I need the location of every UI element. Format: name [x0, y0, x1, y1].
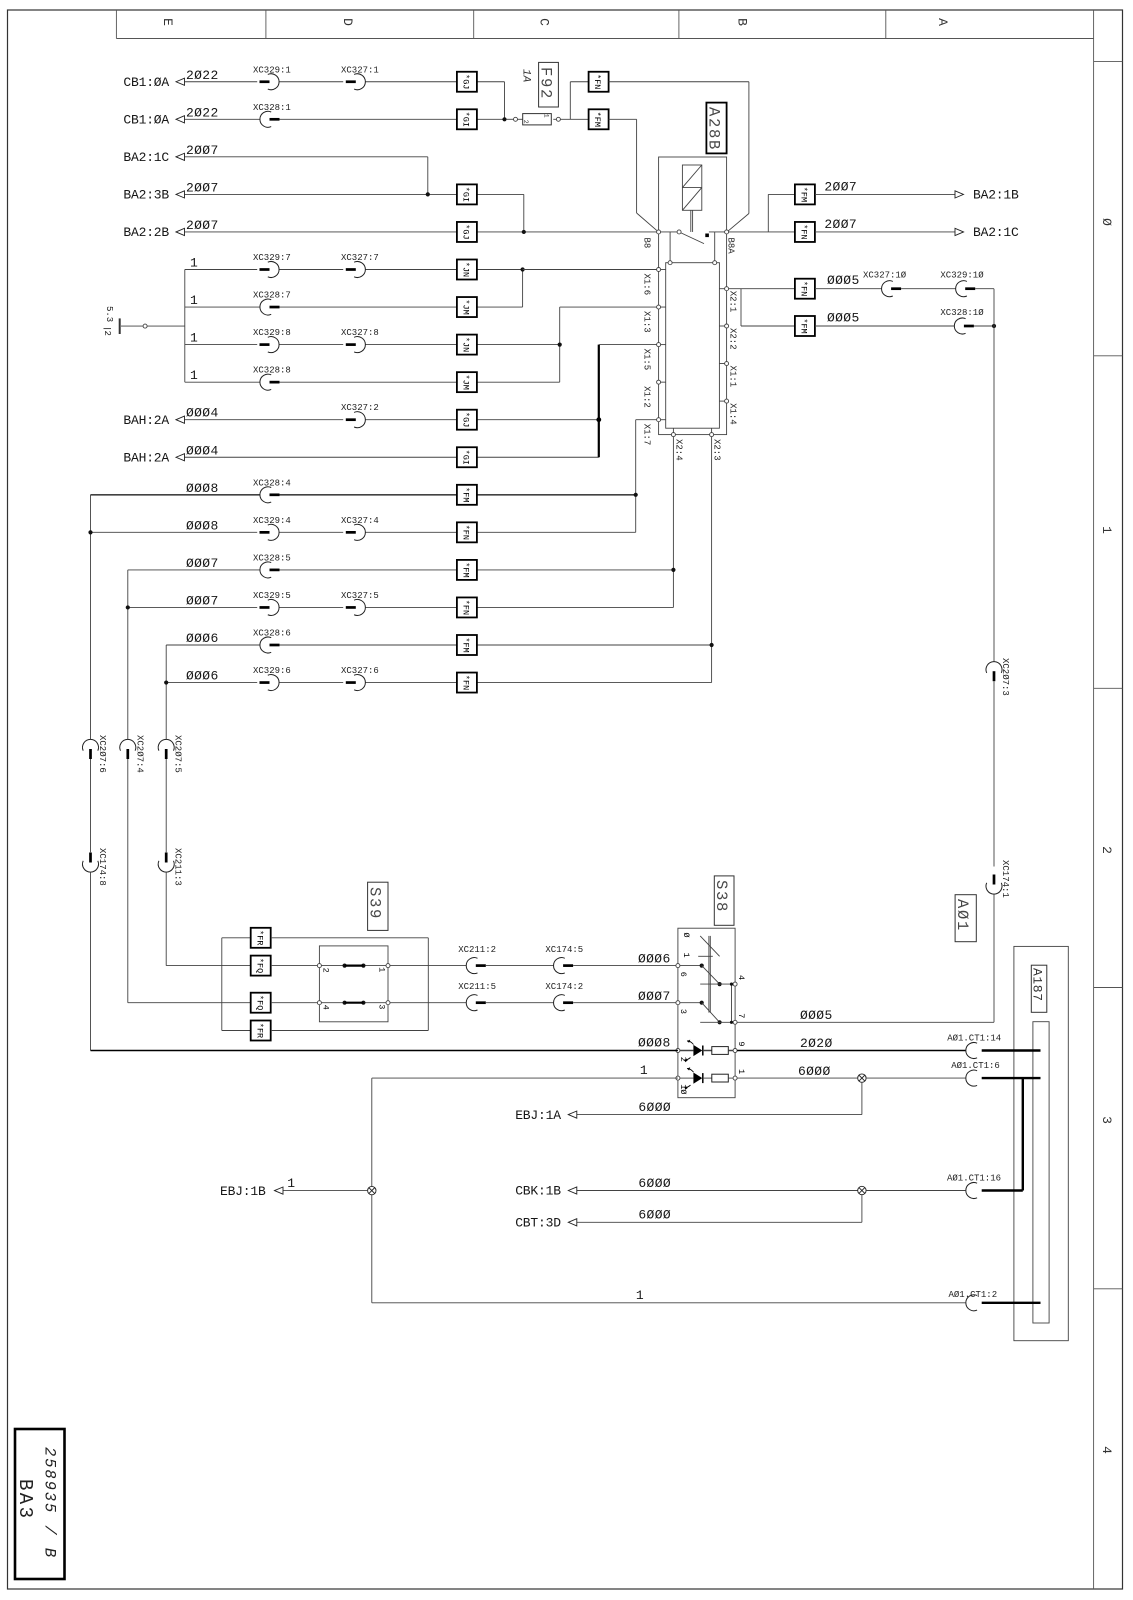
svg-text:*FM: *FM	[799, 318, 809, 333]
svg-text:4: 4	[320, 1005, 330, 1010]
svg-text:1Ø: 1Ø	[678, 1084, 688, 1094]
svg-text:ØØØ6: ØØØ6	[186, 669, 219, 684]
svg-text:XC327:6: XC327:6	[341, 666, 379, 676]
svg-text:*GI: *GI	[461, 450, 471, 465]
svg-text:XC328:7: XC328:7	[253, 291, 291, 301]
svg-text:X2:4: X2:4	[674, 439, 684, 461]
svg-text:3: 3	[377, 1004, 387, 1009]
svg-text:1: 1	[190, 331, 198, 346]
svg-text:*FR: *FR	[254, 930, 264, 945]
svg-text:X1:3: X1:3	[642, 311, 652, 333]
svg-text:B: B	[735, 18, 750, 26]
svg-text:XC2Ø7:4: XC2Ø7:4	[134, 735, 144, 773]
svg-text:*GJ: *GJ	[461, 74, 471, 89]
svg-text:ØØØ7: ØØØ7	[186, 593, 219, 608]
svg-text:*GJ: *GJ	[461, 224, 471, 239]
svg-text:Ø: Ø	[1099, 218, 1114, 226]
svg-text:X1:2: X1:2	[642, 386, 652, 408]
svg-text:BA2:1B: BA2:1B	[973, 188, 1019, 203]
svg-text:1: 1	[190, 368, 198, 383]
svg-text:AØ1.CT1:16: AØ1.CT1:16	[947, 1173, 1001, 1183]
svg-text:5.3: 5.3	[104, 306, 114, 322]
svg-text:X2:1: X2:1	[728, 291, 738, 313]
svg-text:6ØØØ: 6ØØØ	[638, 1100, 671, 1115]
svg-text:BA2:3B: BA2:3B	[123, 188, 169, 203]
svg-text:*FM: *FM	[799, 187, 809, 202]
svg-text:C: C	[537, 18, 552, 26]
svg-text:ØØØ7: ØØØ7	[186, 556, 219, 571]
svg-text:XC329:1: XC329:1	[253, 65, 291, 75]
svg-text:BA2:1C: BA2:1C	[123, 150, 169, 165]
svg-text:X1:1: X1:1	[728, 366, 738, 388]
svg-text:XC329:5: XC329:5	[253, 591, 291, 601]
svg-text:ØØØ8: ØØØ8	[186, 518, 219, 533]
svg-text:7: 7	[736, 1013, 746, 1018]
svg-text:F92: F92	[537, 67, 555, 100]
svg-text:BA2:1C: BA2:1C	[973, 225, 1019, 240]
svg-text:B8: B8	[642, 238, 652, 249]
svg-text:CB1:ØA: CB1:ØA	[123, 113, 169, 128]
svg-text:ØØØ5: ØØØ5	[800, 1008, 833, 1023]
svg-text:*FN: *FN	[461, 525, 471, 540]
svg-text:1: 1	[377, 967, 387, 972]
svg-text:*FQ: *FQ	[254, 995, 264, 1010]
svg-text:2: 2	[522, 120, 529, 124]
svg-text:BAH:2A: BAH:2A	[123, 450, 169, 465]
svg-text:2Ø22: 2Ø22	[186, 105, 219, 120]
svg-text:1: 1	[543, 114, 550, 118]
svg-text:*GJ: *GJ	[461, 412, 471, 427]
svg-text:2: 2	[1099, 846, 1114, 854]
svg-text:1: 1	[190, 256, 198, 271]
svg-text:EBJ:1A: EBJ:1A	[515, 1108, 561, 1123]
svg-text:1: 1	[640, 1063, 648, 1078]
svg-text:A: A	[935, 18, 950, 26]
svg-text:ØØØ5: ØØØ5	[827, 310, 860, 325]
svg-text:1A: 1A	[520, 69, 532, 83]
svg-text:A187: A187	[1030, 968, 1045, 1002]
svg-text:XC328:4: XC328:4	[253, 478, 291, 488]
svg-text:2ØØ7: 2ØØ7	[824, 179, 857, 194]
svg-text:XC327:1: XC327:1	[341, 65, 379, 75]
svg-text:258935 / B: 258935 / B	[41, 1447, 59, 1559]
svg-text:AØ1.CT1:6: AØ1.CT1:6	[951, 1061, 1000, 1071]
svg-text:*FM: *FM	[461, 637, 471, 652]
svg-text:ØØØ5: ØØØ5	[827, 273, 860, 288]
svg-text:CBK:1B: CBK:1B	[515, 1184, 561, 1199]
svg-text:1: 1	[736, 1069, 746, 1074]
svg-text:XC327:2: XC327:2	[341, 403, 379, 413]
svg-text:3: 3	[1099, 1116, 1114, 1124]
svg-text:EBJ:1B: EBJ:1B	[220, 1184, 266, 1199]
svg-text:XC174:8: XC174:8	[97, 848, 107, 886]
svg-text:XC174:1: XC174:1	[1000, 860, 1010, 898]
svg-text:XC327:4: XC327:4	[341, 516, 379, 526]
svg-text:CBT:3D: CBT:3D	[515, 1216, 561, 1231]
svg-text:1: 1	[287, 1176, 295, 1191]
svg-text:X2:3: X2:3	[712, 439, 722, 461]
svg-text:2Ø2Ø: 2Ø2Ø	[800, 1036, 833, 1051]
svg-text:ØØØ6: ØØØ6	[186, 631, 219, 646]
svg-text:BAH:2A: BAH:2A	[123, 413, 169, 428]
svg-text:A28B: A28B	[704, 107, 722, 151]
svg-text:Ø: Ø	[681, 933, 691, 938]
svg-text:2: 2	[102, 331, 112, 336]
svg-text:XC327:8: XC327:8	[341, 328, 379, 338]
svg-text:3: 3	[678, 1009, 688, 1014]
svg-text:XC211:5: XC211:5	[458, 982, 496, 992]
svg-text:X2:2: X2:2	[728, 328, 738, 350]
svg-text:ØØØ4: ØØØ4	[186, 443, 219, 458]
svg-text:*FN: *FN	[461, 600, 471, 615]
svg-text:*JN: *JN	[461, 337, 471, 352]
svg-text:ØØØ8: ØØØ8	[186, 481, 219, 496]
svg-text:4: 4	[1099, 1446, 1114, 1454]
svg-text:B8A: B8A	[726, 238, 736, 255]
svg-text:*JM: *JM	[461, 374, 471, 389]
svg-text:1: 1	[681, 953, 691, 958]
svg-text:*FN: *FN	[799, 281, 809, 296]
svg-text:2ØØ7: 2ØØ7	[186, 180, 219, 195]
svg-text:E: E	[160, 18, 175, 26]
svg-text:XC327:7: XC327:7	[341, 253, 379, 263]
svg-text:XC329:6: XC329:6	[253, 666, 291, 676]
svg-text:X1:4: X1:4	[728, 403, 738, 425]
svg-text:1: 1	[1099, 526, 1114, 534]
svg-text:X1:7: X1:7	[642, 424, 652, 446]
svg-text:BA3: BA3	[14, 1479, 36, 1520]
svg-text:2: 2	[320, 968, 330, 973]
svg-text:AØ1: AØ1	[953, 899, 971, 932]
svg-text:2ØØ7: 2ØØ7	[186, 218, 219, 233]
svg-text:ØØØ7: ØØØ7	[638, 989, 671, 1004]
svg-text:XC328:8: XC328:8	[253, 366, 291, 376]
svg-text:XC327:5: XC327:5	[341, 591, 379, 601]
svg-text:6ØØØ: 6ØØØ	[638, 1176, 671, 1191]
svg-text:CB1:ØA: CB1:ØA	[123, 75, 169, 90]
svg-text:1: 1	[190, 293, 198, 308]
svg-text:4: 4	[736, 975, 746, 980]
svg-text:*FM: *FM	[461, 487, 471, 502]
svg-text:XC329:4: XC329:4	[253, 516, 291, 526]
svg-text:2ØØ7: 2ØØ7	[824, 217, 857, 232]
svg-text:XC211:3: XC211:3	[173, 848, 183, 886]
svg-text:ØØØ6: ØØØ6	[638, 952, 671, 967]
svg-text:AØ1.CT1:14: AØ1.CT1:14	[947, 1033, 1001, 1043]
svg-text:XC2Ø7:3: XC2Ø7:3	[1000, 658, 1010, 696]
svg-text:S38: S38	[712, 880, 730, 913]
svg-text:XC174:5: XC174:5	[545, 945, 583, 955]
svg-text:XC211:2: XC211:2	[458, 945, 496, 955]
svg-text:ØØØ4: ØØØ4	[186, 406, 219, 421]
svg-text:2ØØ7: 2ØØ7	[186, 143, 219, 158]
svg-text:2Ø22: 2Ø22	[186, 68, 219, 83]
svg-text:*FM: *FM	[461, 562, 471, 577]
svg-text:XC328:1: XC328:1	[253, 103, 291, 113]
svg-text:*JN: *JN	[461, 262, 471, 277]
svg-text:*JM: *JM	[461, 299, 471, 314]
svg-text:*GI: *GI	[461, 112, 471, 127]
svg-text:*FN: *FN	[592, 74, 602, 89]
svg-text:D: D	[340, 18, 355, 26]
svg-text:*GI: *GI	[461, 187, 471, 202]
svg-text:*FM: *FM	[592, 112, 602, 127]
svg-text:ØØØ8: ØØØ8	[638, 1036, 671, 1051]
svg-text:X1:5: X1:5	[642, 349, 652, 371]
svg-text:6ØØØ: 6ØØØ	[798, 1064, 831, 1079]
svg-text:XC2Ø7:5: XC2Ø7:5	[173, 735, 183, 773]
svg-text:X1:6: X1:6	[642, 274, 652, 296]
svg-text:6: 6	[678, 972, 688, 977]
svg-text:XC328:1Ø: XC328:1Ø	[940, 308, 984, 318]
svg-text:XC327:1Ø: XC327:1Ø	[863, 271, 907, 281]
svg-text:*FR: *FR	[254, 1023, 264, 1038]
svg-text:XC328:5: XC328:5	[253, 553, 291, 563]
svg-text:9: 9	[736, 1041, 746, 1046]
svg-text:XC329:7: XC329:7	[253, 253, 291, 263]
svg-text:AØ1.CT1:2: AØ1.CT1:2	[949, 1290, 998, 1300]
svg-text:S39: S39	[366, 887, 384, 920]
svg-text:XC329:8: XC329:8	[253, 328, 291, 338]
svg-text:XC2Ø7:6: XC2Ø7:6	[97, 735, 107, 773]
svg-text:XC328:6: XC328:6	[253, 629, 291, 639]
svg-text:*FQ: *FQ	[254, 958, 264, 973]
svg-text:1: 1	[636, 1288, 644, 1303]
svg-text:XC329:1Ø: XC329:1Ø	[940, 271, 984, 281]
svg-text:XC174:2: XC174:2	[545, 982, 583, 992]
svg-text:BA2:2B: BA2:2B	[123, 225, 169, 240]
svg-text:*FN: *FN	[799, 224, 809, 239]
svg-text:6ØØØ: 6ØØØ	[638, 1208, 671, 1223]
svg-text:*FN: *FN	[461, 675, 471, 690]
